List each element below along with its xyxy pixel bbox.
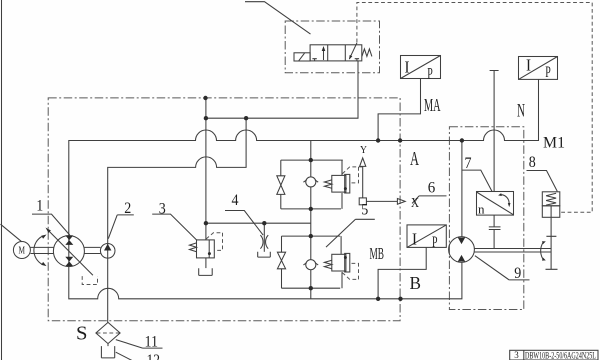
svg-text:I: I [412, 230, 417, 249]
svg-text:S: S [76, 324, 88, 345]
svg-text:I: I [405, 58, 410, 77]
svg-text:M1: M1 [543, 135, 565, 152]
svg-text:P: P [432, 234, 438, 251]
svg-text:DBW10B-2-50/6AG24N25L: DBW10B-2-50/6AG24N25L [525, 350, 596, 360]
svg-text:2: 2 [124, 200, 131, 217]
svg-text:8: 8 [529, 154, 536, 171]
svg-text:MA: MA [424, 95, 441, 115]
svg-text:A: A [410, 148, 419, 170]
svg-text:N: N [517, 101, 525, 122]
svg-text:9: 9 [514, 265, 521, 282]
svg-text:6: 6 [428, 180, 436, 197]
svg-text:5: 5 [361, 202, 368, 219]
svg-text:Y: Y [360, 144, 367, 156]
svg-text:7: 7 [465, 155, 472, 172]
svg-text:B: B [410, 273, 422, 293]
svg-text:P: P [545, 64, 551, 81]
svg-text:3: 3 [514, 350, 519, 360]
svg-text:1: 1 [36, 198, 43, 215]
svg-text:4: 4 [232, 192, 239, 209]
svg-text:MB: MB [370, 244, 385, 263]
svg-text:3: 3 [159, 201, 166, 218]
svg-text:M: M [19, 246, 26, 257]
svg-text:11: 11 [145, 334, 159, 351]
svg-text:X: X [411, 195, 419, 210]
svg-text:P: P [427, 66, 433, 83]
svg-text:n: n [478, 201, 485, 216]
svg-text:12: 12 [147, 352, 161, 360]
svg-text:I: I [526, 56, 531, 75]
